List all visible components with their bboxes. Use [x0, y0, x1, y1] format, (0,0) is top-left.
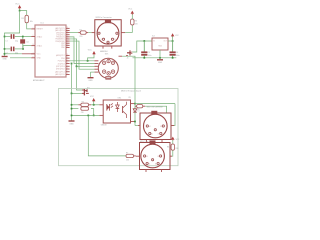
- wire VCC5 to R6: [172, 140, 174, 144]
- svg-text:10k: 10k: [30, 21, 33, 23]
- junction dot rail-C1: [4, 36, 6, 38]
- ground GND4: [157, 60, 163, 64]
- svg-text:C4: C4: [176, 52, 178, 54]
- wire ISP MISO: [70, 39, 95, 66]
- junction dot VCC3 on row1: [87, 60, 89, 62]
- diode D1 1N4148: [133, 106, 140, 112]
- svg-text:19: 19: [66, 46, 68, 48]
- wire jack to regulator in: [132, 41, 152, 52]
- resistor R2 220: [78, 29, 88, 38]
- svg-text:23: 23: [66, 38, 68, 40]
- svg-text:B2: B2: [154, 130, 156, 132]
- wire thru feed down: [88, 115, 125, 155]
- wire junction to R1 top: [20, 11, 27, 16]
- wire X1 pin to R3 bottom: [125, 32, 132, 34]
- wire reg gnd stem: [159, 50, 161, 58]
- svg-text:GND: GND: [37, 58, 42, 60]
- junction dot R9-rail: [93, 115, 95, 117]
- svg-text:D1: D1: [138, 110, 140, 112]
- svg-text:B4: B4: [149, 126, 151, 128]
- svg-text:220: 220: [81, 112, 84, 114]
- svg-text:100n: 100n: [148, 55, 152, 57]
- wire long rail to opto cathode: [72, 114, 100, 116]
- wire XTAL1 row through C2: [5, 48, 24, 50]
- ground GND3: [69, 121, 75, 125]
- svg-text:SV1: SV1: [105, 53, 109, 55]
- svg-text:IC2: IC2: [152, 36, 155, 38]
- connector SV1 ISP header: [94, 53, 122, 79]
- svg-text:GND: GND: [2, 59, 7, 61]
- svg-text:(T0)PD4: (T0)PD4: [58, 63, 65, 65]
- svg-text:R5: R5: [129, 97, 131, 99]
- svg-text:MIDI In/Thru(out) board: MIDI In/Thru(out) board: [121, 90, 141, 93]
- svg-text:24: 24: [66, 35, 68, 37]
- svg-text:B2: B2: [107, 42, 109, 44]
- capacitor C4 100n: [170, 41, 180, 58]
- junction dot thru-feed: [87, 115, 89, 117]
- svg-text:B3: B3: [114, 39, 116, 41]
- wire opto out row: [135, 103, 175, 105]
- svg-text:B5: B5: [118, 33, 120, 35]
- junction dot reset net: [19, 10, 21, 12]
- junction dot reg-out C4: [172, 40, 174, 42]
- wire MCU row to SV1 row1: [70, 60, 95, 62]
- junction dot R8 row: [71, 104, 73, 106]
- connector X4 MIDI Thru DIN-5: [136, 140, 172, 172]
- wire R9 out bend to rail: [91, 109, 94, 116]
- svg-text:(INT0)PD2: (INT0)PD2: [56, 69, 65, 71]
- svg-text:27: 27: [66, 29, 68, 31]
- capacitor C1 22p: [5, 34, 18, 42]
- capacitor C2 22p: [5, 47, 18, 55]
- resistor R3 220: [131, 19, 138, 26]
- svg-text:28: 28: [66, 27, 68, 29]
- svg-text:22: 22: [66, 40, 68, 42]
- wire rail to R9: [72, 108, 79, 110]
- ground GND1: [2, 57, 8, 61]
- svg-text:B5: B5: [160, 126, 162, 128]
- wire descender A to GND3: [71, 93, 73, 120]
- svg-text:25: 25: [66, 33, 68, 35]
- svg-text:B5: B5: [158, 156, 160, 158]
- svg-text:MAB5SH: MAB5SH: [100, 50, 108, 53]
- svg-text:RESET: RESET: [37, 29, 44, 31]
- svg-text:B3: B3: [158, 133, 160, 135]
- wire R8 out to opto anode: [91, 104, 99, 106]
- svg-text:220: 220: [175, 148, 178, 150]
- wire reg out row: [168, 40, 173, 42]
- junction dot rail at descender A: [71, 115, 73, 117]
- svg-text:PB0: PB0: [61, 47, 64, 49]
- resistor R7 220: [126, 153, 136, 162]
- svg-text:B2: B2: [152, 160, 154, 162]
- junction dot rail reg gnd: [159, 57, 161, 59]
- wire VCC1 branch down to crystal rail: [5, 11, 20, 37]
- wire R3 top to VCC2: [131, 14, 133, 19]
- svg-text:B1: B1: [151, 133, 153, 135]
- junction dot XTAL2-crystal: [22, 36, 24, 38]
- svg-text:(ADC1)PC1: (ADC1)PC1: [55, 70, 65, 73]
- svg-text:R1: R1: [22, 18, 24, 20]
- optocoupler OK1 6N138: [99, 98, 134, 127]
- svg-text:220: 220: [79, 36, 82, 38]
- junction dot XTAL1-crystal: [22, 48, 24, 50]
- connector JP1 board link: [82, 87, 90, 95]
- junction dot on A at JP1 row: [71, 93, 73, 95]
- svg-text:VCC: VCC: [128, 8, 133, 10]
- svg-text:OK1: OK1: [118, 98, 122, 100]
- supply VCC2 arrow: [128, 8, 134, 14]
- junction dot opto lower: [134, 121, 136, 123]
- wire R3 bottom lead: [131, 25, 133, 33]
- wire R2 to X1 pin: [88, 32, 91, 34]
- svg-text:21: 21: [66, 42, 68, 44]
- junction dot VCC4 stem: [93, 104, 95, 106]
- svg-text:C3: C3: [148, 52, 150, 54]
- junction dot rail C4: [172, 57, 174, 59]
- svg-text:GND: GND: [88, 80, 93, 82]
- label R5: [129, 97, 131, 99]
- junction dot R9 row: [71, 108, 73, 110]
- wire GND2 stem: [90, 72, 92, 77]
- svg-text:13: 13: [66, 54, 68, 56]
- svg-text:GND: GND: [158, 62, 163, 64]
- svg-text:XTAL2: XTAL2: [37, 35, 43, 38]
- wire VCC6 stem: [172, 36, 174, 41]
- resistor R8 220: [78, 102, 91, 114]
- wire supply ground rail: [133, 57, 177, 59]
- svg-text:MIDI In Connector: MIDI In Connector: [96, 16, 113, 19]
- svg-text:22p: 22p: [15, 40, 18, 42]
- svg-text:10: 10: [66, 62, 68, 64]
- svg-text:12: 12: [66, 57, 68, 59]
- svg-text:(AIN1)PD7: (AIN1)PD7: [56, 54, 65, 57]
- wire right drop to X3: [171, 104, 175, 126]
- junction dot rail-C2: [4, 48, 6, 50]
- wire rail to R8: [72, 104, 79, 106]
- capacitor C3 100n: [141, 41, 151, 58]
- resistor R1 10k pull-up: [22, 15, 33, 23]
- svg-text:VCC: VCC: [90, 96, 95, 98]
- svg-text:220: 220: [126, 159, 129, 161]
- resistor R6 220: [167, 144, 178, 150]
- connector X1 MIDI In DIN-5: [92, 16, 126, 53]
- resistor R5 220: [135, 105, 145, 112]
- svg-text:7805: 7805: [158, 46, 162, 48]
- supply VCC4 arrow: [90, 96, 95, 102]
- svg-text:20: 20: [66, 44, 68, 46]
- supply VCC3 arrow: [88, 50, 96, 55]
- wire VCC row to IC1: [5, 53, 36, 55]
- svg-text:B4: B4: [146, 156, 148, 158]
- svg-text:MIDI Out Connector: MIDI Out Connector: [147, 105, 163, 108]
- wire descender B to JP1 pin1: [77, 66, 83, 90]
- resistor R9 220: [81, 107, 89, 110]
- wire XTAL1 jog to pin: [23, 46, 31, 49]
- supply VCC node at reset pull-up: [15, 4, 21, 9]
- svg-text:R6: R6: [167, 146, 169, 148]
- svg-text:VCC: VCC: [37, 54, 42, 56]
- svg-text:R7: R7: [126, 153, 128, 155]
- wire R1 bottom to RESET pin: [27, 23, 32, 29]
- junction dot reg-in C3: [143, 40, 145, 42]
- svg-text:220: 220: [135, 24, 138, 26]
- wire R6 to X4 right pin: [170, 150, 173, 156]
- voltage regulator IC2 7805: [152, 36, 168, 50]
- wire descender A: [71, 64, 73, 94]
- wire crystal top lead: [22, 37, 24, 40]
- wire VCC3 to row1: [88, 55, 94, 61]
- wire ISP MOSI: [70, 41, 95, 69]
- wire SV1 to vertical bus: [122, 56, 135, 101]
- svg-text:Q1: Q1: [26, 42, 28, 44]
- connector X3 MIDI Out DIN-5: [138, 105, 174, 142]
- junction dot rail C3: [143, 57, 145, 59]
- svg-text:R3: R3: [135, 20, 137, 22]
- wire IC1 RXD to R2: [70, 32, 79, 34]
- junction dot bus-opto row: [134, 103, 136, 105]
- svg-text:ATMEGA8-P: ATMEGA8-P: [33, 79, 45, 82]
- svg-text:100n: 100n: [176, 55, 180, 57]
- svg-text:GND: GND: [69, 123, 74, 125]
- junction dot rail-VCCrow: [4, 53, 6, 55]
- svg-text:JP1: JP1: [87, 87, 90, 89]
- wire GND row to IC1: [10, 57, 31, 59]
- svg-text:B1: B1: [101, 39, 103, 41]
- svg-text:26: 26: [66, 31, 68, 33]
- svg-text:B4: B4: [96, 33, 98, 35]
- junction dot descender B: [76, 65, 78, 67]
- wire left rail with caps: [4, 37, 6, 57]
- supply VCC6 arrow: [171, 33, 180, 37]
- wire VCC1 down to junction: [19, 9, 21, 11]
- frame MIDI board group: [59, 89, 179, 166]
- wire ISP SCK: [70, 37, 95, 64]
- svg-text:VCC: VCC: [15, 4, 20, 6]
- wire XTAL2 row: [5, 36, 32, 38]
- op-amp substitute: microcontroller IC1 ATMEGA8: [31, 23, 69, 82]
- svg-text:PD5(T1): PD5(T1): [58, 61, 65, 63]
- ground GND2: [88, 78, 94, 82]
- wire VCC4 stem: [93, 101, 95, 105]
- wire crystal bottom lead to junction: [22, 44, 24, 49]
- svg-text:PD6: PD6: [61, 58, 65, 60]
- crystal Q1 16MHz: [20, 39, 28, 43]
- supply VCC5 arrow: [171, 137, 180, 141]
- svg-text:R2: R2: [79, 29, 81, 31]
- wire R5 to X3 top: [145, 106, 167, 113]
- wire descender A branch to JP1 pin2: [72, 92, 83, 94]
- svg-text:B1: B1: [148, 163, 150, 165]
- wire bus to R5: [134, 101, 136, 106]
- junction dot descender A: [71, 63, 73, 65]
- svg-text:R3: R3: [82, 102, 84, 104]
- svg-text:J1: J1: [127, 58, 129, 60]
- svg-text:(ADC0)PC0: (ADC0)PC0: [55, 73, 65, 76]
- wire GND2 row: [91, 71, 95, 73]
- svg-text:6N138: 6N138: [101, 125, 107, 127]
- svg-text:OUT: OUT: [163, 40, 166, 42]
- connector J1 power jack: [126, 50, 132, 59]
- wire bus to X3 pin stub: [135, 125, 138, 127]
- svg-text:(INT1)PD3: (INT1)PD3: [56, 66, 65, 68]
- wire D1 to X3 left pin: [134, 112, 136, 125]
- label frame title: [121, 90, 141, 93]
- svg-text:XTAL1: XTAL1: [37, 44, 43, 47]
- svg-text:B3: B3: [155, 163, 157, 165]
- svg-text:VCC: VCC: [88, 50, 93, 52]
- svg-text:C1: C1: [5, 40, 7, 42]
